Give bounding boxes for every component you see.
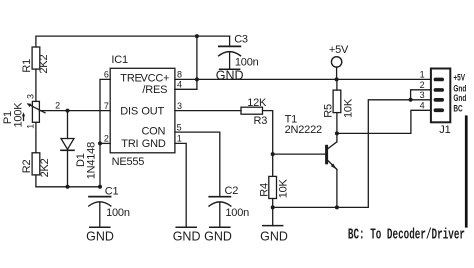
wire R4 gnd stub — [272, 207, 274, 225]
svg-text:/RES: /RES — [142, 84, 167, 96]
resistor R4 — [269, 176, 277, 198]
wire GND pin1 to ground — [175, 143, 186, 227]
ground C1 — [90, 226, 110, 228]
svg-text:6: 6 — [104, 70, 109, 80]
wire base node to T1 — [273, 153, 325, 155]
svg-text:VCC+: VCC+ — [140, 73, 169, 85]
ground C2 — [210, 226, 230, 228]
svg-text:2K2: 2K2 — [39, 158, 51, 177]
wire BC line collector to J1 pin4 — [337, 110, 430, 133]
svg-text:OUT: OUT — [141, 105, 164, 117]
IC pin numbers — [104, 70, 182, 144]
capacitor C3 — [219, 36, 241, 69]
wire R1 to P1 — [35, 69, 37, 101]
svg-text:GND: GND — [216, 69, 244, 83]
ground pin1 — [176, 226, 196, 228]
svg-text:R1: R1 — [21, 59, 33, 73]
wire R5 to collector — [336, 113, 338, 142]
resistor R2 — [32, 153, 40, 175]
svg-text:8: 8 — [177, 70, 182, 80]
svg-text:BC: To Decoder/Driver: BC: To Decoder/Driver — [348, 227, 465, 244]
svg-text:GND: GND — [142, 138, 166, 150]
wire R2 bottom to C1 rail — [36, 175, 100, 187]
svg-text:1: 1 — [177, 134, 182, 144]
svg-text:IC1: IC1 — [111, 54, 128, 66]
svg-text:12K: 12K — [247, 97, 267, 109]
resistor R1 — [32, 47, 40, 69]
svg-text:R5: R5 — [322, 104, 334, 118]
svg-text:+5V: +5V — [453, 72, 465, 83]
svg-text:R3: R3 — [254, 115, 268, 127]
svg-text:5: 5 — [177, 122, 182, 132]
svg-text:100n: 100n — [106, 207, 130, 219]
J1 pin numbers — [420, 70, 425, 111]
svg-text:3: 3 — [26, 94, 36, 99]
svg-text:100n: 100n — [225, 207, 249, 219]
wire CON pin5 to C2 — [175, 132, 220, 197]
transistor Q1 2N2222 — [325, 142, 337, 208]
svg-text:GND: GND — [173, 230, 201, 244]
ground R4 — [263, 225, 283, 227]
IC pin names — [120, 73, 169, 150]
svg-text:1N4148: 1N4148 — [85, 142, 97, 179]
svg-text:TRI: TRI — [121, 138, 138, 150]
svg-text:3: 3 — [420, 90, 425, 100]
wire R4 to ground rail — [272, 199, 274, 208]
svg-text:2: 2 — [420, 80, 425, 90]
svg-text:R2: R2 — [21, 160, 33, 174]
svg-text:NE555: NE555 — [112, 156, 145, 168]
svg-text:C1: C1 — [105, 185, 119, 197]
wire pin8 stub — [175, 78, 197, 80]
svg-text:Gnd: Gnd — [453, 93, 466, 104]
svg-text:C2: C2 — [225, 185, 239, 197]
svg-text:10K: 10K — [343, 98, 355, 118]
svg-text:GND: GND — [204, 230, 232, 244]
svg-text:1: 1 — [26, 124, 36, 129]
svg-text:1: 1 — [420, 70, 425, 80]
svg-text:J1: J1 — [439, 124, 450, 136]
wire J1 pin2 to pin3 — [411, 90, 430, 100]
capacitor C2 — [209, 197, 231, 228]
diode D1 — [61, 111, 74, 187]
svg-text:100K: 100K — [12, 102, 24, 128]
svg-text:TRE: TRE — [120, 73, 141, 85]
svg-text:DIS: DIS — [120, 105, 138, 117]
resistor R5 — [333, 90, 341, 113]
svg-text:GND: GND — [86, 230, 114, 244]
svg-text:3: 3 — [177, 101, 182, 111]
wire wiper to DIS pin7 — [39, 110, 110, 112]
wire pin2 stub — [100, 142, 110, 144]
wire TRE/TRI tie (pins 6-2) — [100, 79, 110, 186]
ground C3 — [220, 68, 240, 70]
svg-text:10K: 10K — [278, 178, 290, 198]
svg-text:+5V: +5V — [329, 44, 349, 56]
wire P1 to R2 — [35, 122, 37, 153]
wire emitter ground rail to J1 — [273, 100, 430, 208]
wire top rail from R1 to C3 — [36, 36, 230, 47]
svg-text:R4: R4 — [259, 183, 271, 197]
connector J1 — [431, 69, 450, 123]
capacitor C1 — [89, 197, 111, 228]
svg-text:100n: 100n — [235, 57, 259, 69]
wire OUT pin3 to R3 — [175, 110, 241, 112]
svg-text:7: 7 — [104, 101, 109, 111]
wire R3 to base node — [263, 111, 273, 177]
svg-text:GND: GND — [260, 230, 288, 244]
potentiometer P1 — [32, 101, 39, 122]
svg-text:2: 2 — [104, 134, 109, 144]
svg-text:4: 4 — [420, 100, 425, 110]
svg-text:CON: CON — [141, 126, 165, 138]
svg-text:2N2222: 2N2222 — [285, 124, 322, 136]
supply +5V circle — [331, 57, 341, 67]
svg-text:4: 4 — [177, 80, 182, 90]
svg-text:2K2: 2K2 — [38, 55, 50, 74]
wire pin4 stub — [175, 88, 197, 90]
wire vcc drop to pins 8/4 — [196, 36, 198, 89]
J1 signal labels — [453, 72, 466, 114]
svg-text:2: 2 — [55, 100, 60, 110]
svg-text:BC: BC — [453, 103, 462, 114]
wire +5V rail — [197, 78, 430, 80]
IC box U1 — [110, 68, 175, 153]
frame line right — [465, 115, 468, 227]
svg-text:C3: C3 — [234, 34, 248, 46]
resistor R3 — [241, 107, 263, 114]
